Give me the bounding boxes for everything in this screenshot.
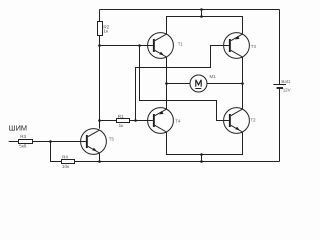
svg-text:T1: T1	[178, 42, 184, 47]
node R2-T1 base junction	[98, 44, 101, 47]
transistor T2 (NPN)	[224, 108, 250, 134]
svg-text:Bat1: Bat1	[281, 79, 291, 84]
node bottom rail tie	[200, 160, 203, 163]
wire T1 base	[100, 45, 148, 47]
wire bottom tie vertical	[201, 155, 203, 162]
wire control line to T3 base (from R1 node)	[136, 46, 224, 121]
node T5 emitter ground	[98, 160, 101, 163]
transistor T4 (PNP)	[148, 108, 174, 134]
wire R2 bottom to T5 collector vertical	[99, 36, 101, 129]
node R1 right / T3 branch	[134, 119, 137, 122]
motor M1	[190, 75, 207, 92]
svg-text:T5: T5	[109, 136, 115, 141]
wire top +12V rail	[100, 9, 280, 11]
resistor R4	[62, 160, 75, 164]
wire top rail left drop to R2	[99, 10, 101, 22]
transistor T3 (PNP)	[224, 33, 250, 59]
svg-text:10к: 10к	[62, 164, 70, 169]
wire battery negative to ground rail	[279, 88, 281, 162]
wire R1 right lead to T4 base	[130, 120, 148, 122]
wire control line to T2 base (from T1 base node)	[140, 46, 224, 121]
svg-text:T4: T4	[175, 118, 181, 123]
svg-text:ШИМ: ШИМ	[9, 124, 27, 133]
node motor right	[241, 82, 244, 85]
svg-text:R1: R1	[118, 114, 124, 119]
svg-text:M1: M1	[210, 74, 217, 79]
svg-text:5к6: 5к6	[19, 144, 27, 149]
resistor R3	[19, 140, 33, 144]
svg-text:R4: R4	[62, 154, 68, 159]
transistor T5 (NPN driver)	[81, 129, 107, 155]
svg-text:T2: T2	[251, 117, 257, 122]
wire rail tie vertical	[201, 10, 203, 17]
wire T5 emitter down	[99, 153, 101, 162]
wire battery positive drop	[279, 10, 281, 85]
wire PWM input lead	[9, 141, 19, 143]
node motor left	[165, 82, 168, 85]
node second rail tie lower	[200, 15, 203, 18]
node T1 base / T2 branch	[138, 44, 141, 47]
battery Bat1	[273, 85, 286, 89]
node bottom H tie upper	[200, 153, 203, 156]
node R3-R4 branch	[49, 140, 52, 143]
wire T4 collector to bottom H wire	[167, 132, 243, 155]
wire motor right lead	[207, 83, 243, 85]
node top rail tie upper	[200, 8, 203, 11]
svg-text:12V: 12V	[283, 88, 291, 93]
wire R1 left lead	[100, 120, 117, 122]
resistor R2	[98, 22, 103, 36]
wire branch down to R4	[51, 142, 62, 162]
svg-text:R3: R3	[20, 134, 26, 139]
wire R3 to T5 base	[33, 141, 81, 143]
wire T3 collector down to motor node	[242, 57, 244, 109]
node R1 left junction	[98, 119, 101, 122]
wire T1 emitter down to motor node	[166, 57, 168, 109]
wire bottom ground rail	[75, 161, 280, 163]
svg-text:T3: T3	[251, 44, 257, 49]
resistor R1	[117, 119, 130, 123]
wire motor left lead	[167, 83, 191, 85]
transistor T1 (NPN)	[148, 33, 174, 59]
wire second rail (T1 collector to T3 emitter)	[167, 17, 243, 35]
